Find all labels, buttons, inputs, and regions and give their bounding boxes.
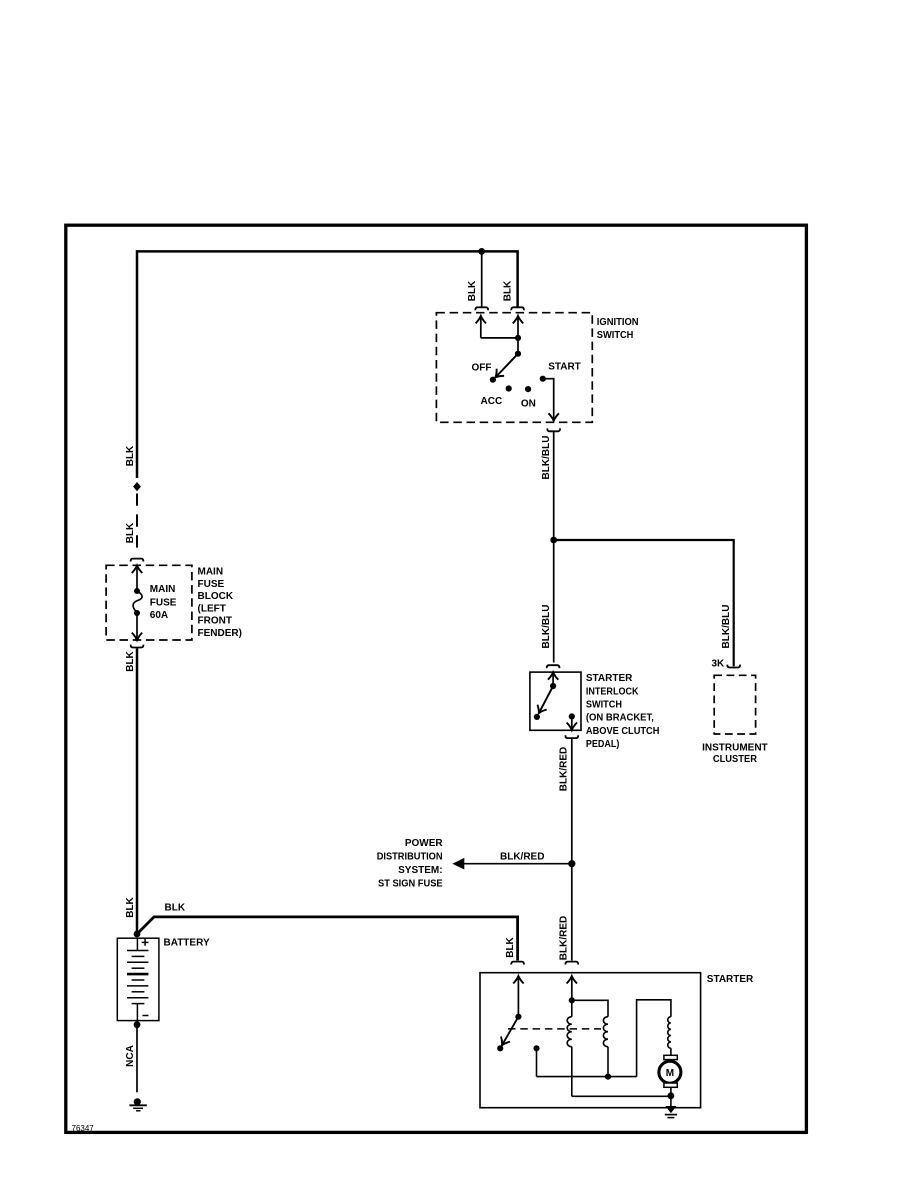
svg-text:SYSTEM:: SYSTEM:: [398, 865, 442, 876]
svg-text:BLK: BLK: [125, 522, 136, 543]
svg-text:INTERLOCK: INTERLOCK: [586, 687, 639, 698]
svg-text:POWER: POWER: [405, 838, 444, 849]
svg-text:SWITCH: SWITCH: [586, 700, 622, 711]
svg-text:BLK/BLU: BLK/BLU: [721, 605, 732, 649]
svg-text:NCA: NCA: [125, 1045, 136, 1067]
svg-text:BLK: BLK: [125, 445, 136, 466]
svg-text:SWITCH: SWITCH: [597, 330, 634, 341]
svg-text:DISTRIBUTION: DISTRIBUTION: [377, 852, 443, 863]
svg-text:PEDAL): PEDAL): [586, 739, 620, 750]
svg-text:FENDER): FENDER): [198, 628, 242, 639]
svg-text:BLK: BLK: [505, 936, 516, 957]
svg-text:3K: 3K: [712, 659, 726, 670]
svg-text:BLK: BLK: [125, 650, 136, 671]
svg-text:BLK/RED: BLK/RED: [559, 916, 570, 960]
svg-text:ON: ON: [521, 398, 536, 409]
svg-text:M: M: [666, 1068, 674, 1079]
svg-text:(ON BRACKET,: (ON BRACKET,: [586, 713, 654, 724]
svg-text:76347: 76347: [72, 1124, 95, 1133]
svg-text:BLK: BLK: [165, 902, 186, 913]
svg-text:60A: 60A: [150, 610, 168, 621]
svg-text:FUSE: FUSE: [150, 598, 177, 609]
svg-text:(LEFT: (LEFT: [198, 603, 226, 614]
svg-text:START: START: [548, 361, 581, 372]
svg-text:BLK: BLK: [467, 280, 478, 301]
svg-text:OFF: OFF: [472, 362, 492, 373]
svg-text:ST SIGN FUSE: ST SIGN FUSE: [378, 878, 443, 889]
svg-text:STARTER: STARTER: [586, 673, 633, 684]
svg-text:MAIN: MAIN: [150, 584, 176, 595]
svg-text:BLK/RED: BLK/RED: [500, 852, 544, 863]
svg-text:BLOCK: BLOCK: [198, 591, 234, 602]
svg-text:INSTRUMENT: INSTRUMENT: [702, 742, 768, 753]
svg-text:BLK: BLK: [125, 896, 136, 917]
svg-text:BLK/RED: BLK/RED: [559, 747, 570, 791]
svg-text:BLK: BLK: [503, 280, 514, 301]
svg-text:FRONT: FRONT: [198, 616, 232, 627]
svg-text:IGNITION: IGNITION: [597, 317, 639, 328]
svg-text:BLK/BLU: BLK/BLU: [541, 436, 552, 480]
svg-text:STARTER: STARTER: [707, 974, 754, 985]
svg-text:ABOVE CLUTCH: ABOVE CLUTCH: [586, 726, 660, 737]
svg-text:BLK/BLU: BLK/BLU: [541, 605, 552, 649]
svg-text:BATTERY: BATTERY: [164, 938, 210, 949]
svg-text:FUSE: FUSE: [198, 579, 225, 590]
svg-text:CLUSTER: CLUSTER: [713, 754, 758, 765]
svg-text:ACC: ACC: [481, 396, 503, 407]
svg-text:MAIN: MAIN: [198, 567, 224, 578]
